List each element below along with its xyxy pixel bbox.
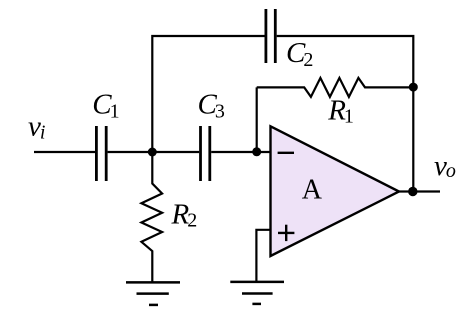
wire node up to top feedback rail [152, 36, 264, 152]
svg-text:R1: R1 [327, 95, 354, 128]
wire C2 to right rail down to output [277, 36, 414, 192]
node input junction [148, 148, 157, 157]
wire op-amp output to vo [399, 190, 440, 192]
wire C1 to C3 through node [108, 151, 200, 153]
svg-text:vi: vi [28, 111, 45, 144]
svg-text:A: A [302, 174, 323, 205]
resistor R2 [141, 152, 162, 282]
node output junction [408, 187, 417, 196]
ground (below R2) [126, 282, 180, 305]
op-amp plus symbol [278, 225, 294, 241]
svg-text:R2: R2 [171, 198, 198, 231]
wire R1 left end down to inverting input node [256, 87, 258, 152]
svg-text:C1: C1 [92, 89, 119, 123]
wire non-inverting input to ground [256, 230, 270, 281]
op-amp minus symbol [278, 152, 294, 154]
node inverting input junction [252, 147, 261, 156]
svg-text:C2: C2 [286, 37, 313, 71]
resistor R1 [257, 78, 414, 97]
wire input vi to C1 [34, 151, 95, 153]
capacitor C1 [96, 126, 106, 181]
ground (op-amp + input) [230, 282, 284, 304]
capacitor C2 [266, 9, 275, 63]
svg-text:C3: C3 [198, 88, 225, 122]
svg-text:vo: vo [434, 150, 456, 182]
node R1 / right rail junction [409, 83, 418, 92]
op-amp U1 (A) [271, 126, 400, 256]
wire C3 to op-amp inverting input [211, 151, 270, 153]
capacitor C3 [201, 126, 210, 181]
